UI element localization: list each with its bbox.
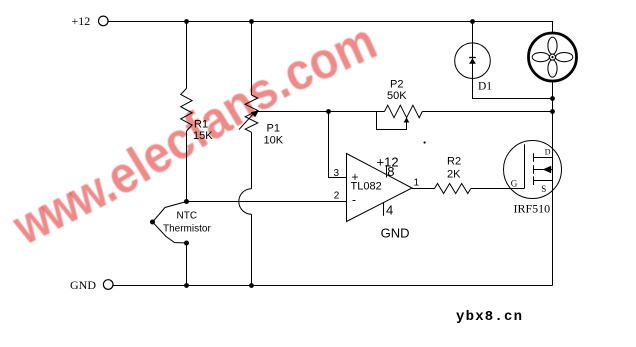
fan blade top [548,37,557,54]
svg-text:D1: D1 [478,81,492,93]
pin 8 tick [386,165,388,178]
fan blade left [532,53,549,62]
junction NTC apex [150,220,155,225]
svg-text:3: 3 [334,168,340,179]
wire wiper net to P2 [258,111,385,113]
wire ground rail [113,285,553,287]
svg-text:S: S [541,184,546,194]
potentiometer P2 [385,105,423,118]
wire P2 right to drain node [422,111,552,113]
wire P1 to ground rail [251,214,253,285]
P1 wiper arrowhead [251,110,259,117]
wire R2 to gate [471,188,525,190]
fan hub [550,54,556,60]
resistor R1 [181,88,192,131]
wire drain rail [552,80,554,286]
svg-text:1: 1 [414,178,420,189]
watermark www.elecfans.com [0,0,1,1]
svg-text:+12: +12 [72,14,91,28]
svg-text:10K: 10K [264,135,284,147]
node +12 terminal [99,16,109,26]
svg-text:15K: 15K [193,130,213,142]
junction P2 right [550,109,555,114]
svg-text:8: 8 [387,164,394,179]
junction NTC top [184,199,189,204]
wire top rail +12 [108,22,552,35]
junction wiper node [326,109,331,114]
fan M1 body [529,33,577,81]
wire opamp pin3 branch [329,112,347,178]
wire opamp pin2 net [187,201,347,203]
svg-text:P2: P2 [390,79,403,91]
P2 wiper arrowhead [404,117,410,122]
diode D1 circle [455,43,491,79]
diode D1 arrow [469,58,476,64]
pin 4 tick [383,202,385,216]
svg-text:50K: 50K [387,90,407,102]
thermistor NTC [153,202,187,244]
op-amp U1 TL082 [347,154,413,222]
junction ground P1 [249,283,254,288]
stray dot [424,141,426,143]
wire R1 bottom to NTC [186,131,188,201]
svg-text:Thermistor: Thermistor [163,224,211,235]
diode D1 cathode bar [469,57,476,59]
svg-text:GND: GND [381,226,410,241]
wire D1 branch [473,22,553,99]
fan hub dot [551,56,553,58]
wire opamp output [412,188,435,190]
svg-text:D: D [545,148,551,157]
wire P1 top [251,22,253,96]
junction NTC bottom [184,241,189,246]
svg-text:ybx8.cn: ybx8.cn [456,309,523,325]
svg-text:GND: GND [70,278,96,292]
svg-text:NTC: NTC [177,211,198,222]
junction top P1 [249,19,254,24]
potentiometer P1 [245,95,258,132]
svg-text:2K: 2K [447,169,461,181]
junction top D1 [470,19,475,24]
svg-text:R1: R1 [194,119,208,131]
svg-text:IRF510: IRF510 [514,202,551,216]
fan blade bottom [548,60,557,77]
svg-text:4: 4 [386,202,393,217]
svg-text:R2: R2 [447,156,461,168]
junction D1 return [550,96,555,101]
transistor source contact [534,180,553,182]
svg-text:P1: P1 [267,123,280,135]
transistor gate bar [524,144,526,188]
transistor body contact [534,169,553,171]
fan blade right [556,53,573,62]
resistor R2 [435,184,471,194]
wire R1 top [186,22,188,89]
svg-text:-: - [352,193,356,207]
transistor drain contact [534,157,553,159]
wire hop over pin2 net [239,189,252,214]
potentiometer P1 wiper arrow [239,112,255,129]
transistor body arrow [543,166,552,174]
junction top R1 [184,19,189,24]
svg-text:TL082: TL082 [351,181,382,193]
node GND terminal [103,280,113,290]
svg-text:G: G [511,179,518,189]
junction ground R1 [184,283,189,288]
svg-text:2: 2 [334,191,340,202]
wire P2 wiper bracket [377,112,407,130]
wire NTC to ground rail [186,243,188,286]
wire P1 below [251,132,253,189]
transistor Q1 IRF510 body circle [504,141,562,199]
